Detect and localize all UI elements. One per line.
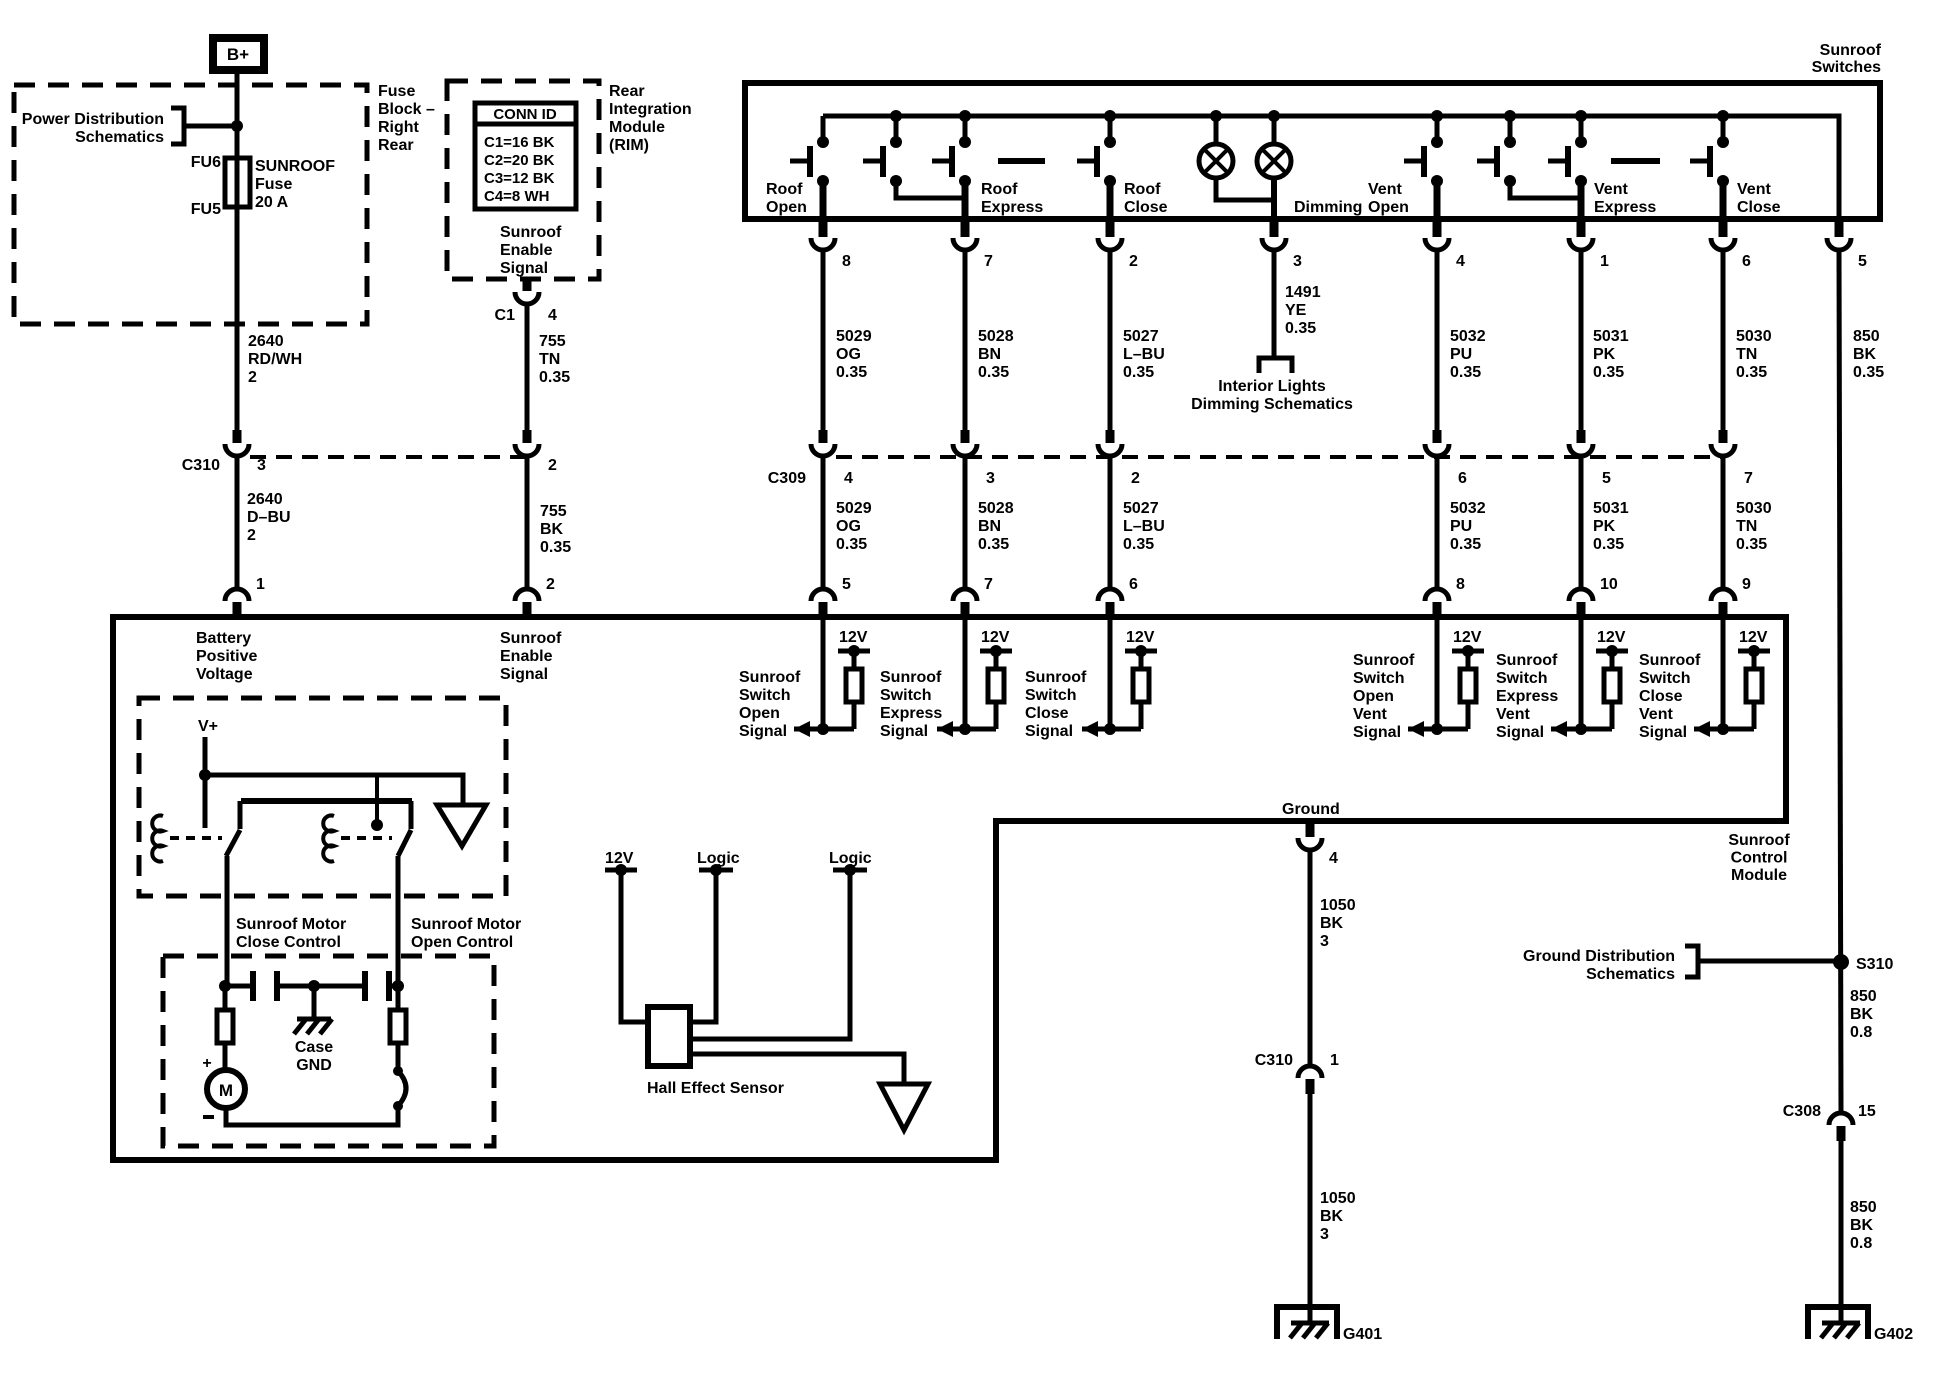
wire switch stub — [963, 116, 968, 140]
motor M — [207, 1070, 245, 1108]
module connector pin 9 — [1711, 589, 1735, 601]
svg-text:Sunroof Motor: Sunroof Motor — [411, 916, 521, 933]
svg-text:0.35: 0.35 — [539, 369, 570, 386]
svg-text:Express: Express — [1496, 688, 1558, 705]
wire 850 BK to S310 — [1839, 250, 1841, 1113]
svg-text:BK: BK — [540, 521, 564, 538]
svg-text:2: 2 — [247, 527, 256, 544]
bus junction — [959, 110, 971, 122]
svg-text:Sunroof: Sunroof — [500, 630, 562, 647]
wire C309 to module — [821, 456, 826, 589]
junction node on B+ feed — [231, 120, 243, 132]
svg-text:5030: 5030 — [1736, 500, 1772, 517]
svg-text:5027: 5027 — [1123, 500, 1159, 517]
wire signal to arrow — [1551, 727, 1612, 732]
svg-text:4: 4 — [1329, 850, 1338, 867]
svg-text:0.35: 0.35 — [836, 536, 867, 553]
wire switch output — [962, 181, 969, 219]
svg-text:L–BU: L–BU — [1123, 518, 1165, 535]
dashed connector line C310 — [250, 455, 527, 459]
svg-text:5: 5 — [1858, 253, 1867, 270]
wire switch stub — [1721, 116, 1726, 140]
wire signal to arrow — [937, 727, 996, 732]
switch upper contact — [1504, 136, 1516, 148]
svg-text:3: 3 — [1293, 253, 1302, 270]
wire motor bottom rail — [226, 1108, 398, 1125]
svg-text:0.35: 0.35 — [978, 536, 1009, 553]
connector sunroof switches pin 1 — [1577, 221, 1586, 237]
relay K2 fixed contact — [409, 801, 414, 829]
wire power distribution tap — [184, 124, 237, 129]
wire C310-2 to module pin 2 — [525, 456, 530, 589]
switch actuator bar — [1421, 146, 1427, 177]
module connector pin 6 — [1098, 589, 1122, 601]
svg-text:SUNROOF: SUNROOF — [255, 158, 335, 175]
connector sunroof switches pin 4 — [1433, 221, 1442, 237]
wire switch stub — [894, 116, 899, 140]
wire C309 to module — [1579, 456, 1584, 589]
svg-text:2: 2 — [546, 576, 555, 593]
wire C309 to module — [1435, 456, 1440, 589]
limit switch contact dots — [393, 1066, 403, 1076]
svg-text:Interior Lights: Interior Lights — [1218, 378, 1326, 395]
connector C309 pin 4 — [819, 430, 828, 443]
svg-text:7: 7 — [984, 253, 993, 270]
svg-text:5028: 5028 — [978, 500, 1014, 517]
svg-text:FU6: FU6 — [191, 154, 221, 171]
sunroof control module box — [113, 617, 1786, 1160]
svg-text:5031: 5031 — [1593, 500, 1629, 517]
bus junction — [1104, 110, 1116, 122]
bus junction — [1504, 110, 1516, 122]
svg-text:Dimming: Dimming — [1294, 199, 1362, 216]
arrowhead signal — [794, 721, 810, 737]
resistor pull-up — [1466, 651, 1471, 669]
svg-text:5032: 5032 — [1450, 328, 1486, 345]
wire module input — [1579, 617, 1584, 729]
svg-text:Sunroof: Sunroof — [1728, 832, 1790, 849]
wire relay contact rail — [241, 798, 412, 804]
wire C310-1 to G401 — [1308, 1094, 1313, 1323]
switch actuator bar — [880, 146, 886, 177]
svg-text:850: 850 — [1853, 328, 1880, 345]
svg-text:12V: 12V — [839, 629, 868, 646]
svg-text:PK: PK — [1593, 518, 1616, 535]
svg-text:OG: OG — [836, 518, 861, 535]
ground G402 — [1808, 1307, 1868, 1339]
svg-text:5: 5 — [1602, 470, 1611, 487]
connector sunroof switches pin 7 — [961, 221, 970, 237]
svg-text:Module: Module — [609, 119, 665, 136]
connector sunroof switches pin 3 — [1270, 221, 1279, 237]
svg-text:Rear: Rear — [378, 137, 414, 154]
svg-text:Vent: Vent — [1737, 181, 1771, 198]
svg-text:V+: V+ — [198, 718, 218, 735]
switch upper contact — [1104, 136, 1116, 148]
switch upper contact — [1431, 136, 1443, 148]
svg-text:12V: 12V — [981, 629, 1010, 646]
lamp dimming illumination 2 — [1272, 116, 1277, 144]
svg-text:1: 1 — [256, 576, 265, 593]
svg-text:Control: Control — [1731, 850, 1788, 867]
svg-text:4: 4 — [844, 470, 853, 487]
svg-text:Signal: Signal — [1639, 724, 1687, 741]
wire hall sensor output to ground triangle — [690, 1054, 904, 1084]
svg-text:BN: BN — [978, 346, 1001, 363]
svg-text:C4=8 WH: C4=8 WH — [484, 188, 549, 205]
wire switch output — [1720, 181, 1727, 219]
junction open branch — [392, 980, 404, 992]
wire module input — [1435, 617, 1440, 729]
resistor pull-up — [852, 651, 857, 669]
svg-text:0.8: 0.8 — [1850, 1024, 1872, 1041]
module connector pin 10 — [1569, 589, 1593, 601]
resistor motor close — [223, 986, 228, 1010]
svg-text:BN: BN — [978, 518, 1001, 535]
connector C309 pin 5 — [1577, 430, 1586, 443]
wire dimming 1491 YE — [1272, 250, 1277, 357]
svg-text:5027: 5027 — [1123, 328, 1159, 345]
svg-text:Module: Module — [1731, 867, 1787, 884]
svg-text:5029: 5029 — [836, 328, 872, 345]
bus junction — [1431, 110, 1443, 122]
connector C1 pin 4 of RIM — [523, 279, 532, 291]
wire module input — [963, 617, 968, 729]
wire signal to arrow — [1408, 727, 1468, 732]
limit switch arc — [398, 1071, 406, 1106]
arrowhead signal — [1551, 721, 1567, 737]
svg-text:Right: Right — [378, 119, 420, 136]
arrowhead signal — [1408, 721, 1424, 737]
svg-text:2: 2 — [1131, 470, 1140, 487]
svg-text:C310: C310 — [182, 457, 220, 474]
svg-text:5030: 5030 — [1736, 328, 1772, 345]
switch lower contact — [1104, 175, 1116, 187]
wire switch to C309 — [1721, 250, 1726, 431]
svg-text:12V: 12V — [1126, 629, 1155, 646]
svg-text:6: 6 — [1742, 253, 1751, 270]
junction signal — [1104, 723, 1116, 735]
wire B+ to fuse to C310 pin 3 — [235, 74, 240, 440]
svg-text:TN: TN — [1736, 518, 1757, 535]
dashed connector line C309 — [836, 455, 1723, 459]
wire module input — [821, 617, 826, 729]
module connector pin 4 ground — [1306, 824, 1315, 837]
svg-text:0.8: 0.8 — [1850, 1235, 1872, 1252]
svg-text:C308: C308 — [1783, 1103, 1821, 1120]
svg-text:Sunroof: Sunroof — [1496, 652, 1558, 669]
svg-text:Vent: Vent — [1353, 706, 1387, 723]
svg-text:PU: PU — [1450, 346, 1472, 363]
svg-text:1491: 1491 — [1285, 284, 1321, 301]
wire switch output — [820, 181, 827, 219]
splice S310 — [1833, 954, 1849, 970]
svg-text:0.35: 0.35 — [1853, 364, 1884, 381]
switch upper contact — [959, 136, 971, 148]
connector C309 pin 7 — [1719, 430, 1728, 443]
relay coil K2 — [323, 816, 334, 862]
ground triangle hall — [880, 1084, 928, 1130]
svg-text:2: 2 — [1129, 253, 1138, 270]
svg-text:Signal: Signal — [739, 723, 787, 740]
wire switch to C309 — [1108, 250, 1113, 431]
junction signal — [1575, 723, 1587, 735]
svg-text:0.35: 0.35 — [1736, 536, 1767, 553]
resistor pull-up — [1610, 651, 1615, 669]
arrowhead signal — [937, 721, 953, 737]
wire switch stub — [1508, 116, 1513, 140]
connector C310 pin 2 — [523, 430, 532, 443]
junction signal — [817, 723, 829, 735]
wire 12V to hall sensor — [621, 870, 646, 1022]
svg-text:Open: Open — [766, 199, 807, 216]
mechanical link bar vent — [1611, 158, 1660, 164]
svg-text:G402: G402 — [1874, 1326, 1913, 1343]
svg-text:0.35: 0.35 — [1285, 320, 1316, 337]
junction close branch — [219, 980, 231, 992]
svg-text:BK: BK — [1853, 346, 1877, 363]
module connector pin 1 — [225, 589, 249, 601]
connector sunroof switches pin 5 — [1835, 221, 1844, 237]
svg-text:Sunroof Motor: Sunroof Motor — [236, 916, 346, 933]
wire signal to arrow — [1694, 727, 1754, 732]
svg-text:0.35: 0.35 — [836, 364, 867, 381]
svg-text:C2=20 BK: C2=20 BK — [484, 152, 555, 169]
module connector pin 2 — [515, 589, 539, 601]
svg-text:0.35: 0.35 — [978, 364, 1009, 381]
svg-text:Switch: Switch — [1025, 687, 1077, 704]
connector sunroof switches pin 8 — [819, 221, 828, 237]
capacitor C-right — [362, 971, 368, 1001]
svg-text:4: 4 — [548, 307, 557, 324]
svg-text:Signal: Signal — [1353, 724, 1401, 741]
wire switch stub — [1435, 116, 1440, 140]
svg-text:Sunroof: Sunroof — [739, 669, 801, 686]
svg-text:Signal: Signal — [500, 260, 548, 277]
svg-text:0.35: 0.35 — [1593, 364, 1624, 381]
svg-text:Switch: Switch — [1496, 670, 1548, 687]
svg-text:D–BU: D–BU — [247, 509, 291, 526]
svg-text:Integration: Integration — [609, 101, 692, 118]
svg-text:OG: OG — [836, 346, 861, 363]
relay dashed box — [139, 698, 506, 896]
svg-text:0.35: 0.35 — [1450, 364, 1481, 381]
lamp dimming illumination 1 — [1214, 116, 1219, 144]
svg-text:C310: C310 — [1255, 1052, 1293, 1069]
connector C309 pin 6 — [1433, 430, 1442, 443]
svg-text:L–BU: L–BU — [1123, 346, 1165, 363]
wire gang link roof express — [896, 183, 965, 198]
svg-text:12V: 12V — [1453, 629, 1482, 646]
svg-text:6: 6 — [1458, 470, 1467, 487]
svg-text:Vent: Vent — [1368, 181, 1402, 198]
svg-text:755: 755 — [540, 503, 567, 520]
svg-text:7: 7 — [1744, 470, 1753, 487]
svg-text:1050: 1050 — [1320, 1190, 1356, 1207]
svg-text:Dimming Schematics: Dimming Schematics — [1191, 396, 1353, 413]
svg-text:Switch: Switch — [1353, 670, 1405, 687]
svg-text:0.35: 0.35 — [1593, 536, 1624, 553]
svg-text:Signal: Signal — [880, 723, 928, 740]
resistor motor open — [396, 986, 401, 1010]
svg-text:TN: TN — [1736, 346, 1757, 363]
svg-text:YE: YE — [1285, 302, 1307, 319]
connector C310 pin 3 — [233, 430, 242, 443]
wire switch output — [1107, 181, 1114, 219]
switch upper contact — [890, 136, 902, 148]
wire signal to arrow — [1082, 727, 1141, 732]
bus junction — [1717, 110, 1729, 122]
switch lower contact — [890, 175, 902, 187]
svg-text:Vent: Vent — [1639, 706, 1673, 723]
ground triangle module internal — [437, 805, 486, 846]
svg-text:Vent: Vent — [1594, 181, 1628, 198]
svg-text:2640: 2640 — [247, 491, 283, 508]
svg-text:Power Distribution: Power Distribution — [22, 111, 164, 128]
svg-text:Open: Open — [739, 705, 780, 722]
wire module input — [1721, 617, 1726, 729]
svg-text:12V: 12V — [1739, 629, 1768, 646]
svg-text:1: 1 — [1330, 1052, 1339, 1069]
svg-text:0.35: 0.35 — [1450, 536, 1481, 553]
switch actuator bar — [1094, 146, 1100, 177]
svg-text:6: 6 — [1129, 576, 1138, 593]
svg-text:FU5: FU5 — [191, 201, 221, 218]
svg-text:Enable: Enable — [500, 242, 553, 259]
relay K1 linkage dashes — [170, 836, 222, 840]
connector C308 pin 15 — [1829, 1113, 1853, 1125]
svg-text:Switches: Switches — [1812, 59, 1881, 76]
wire logic2 to hall sensor — [690, 870, 850, 1039]
svg-text:Ground: Ground — [1282, 801, 1340, 818]
resistor pull-up — [994, 651, 999, 669]
motor dashed box — [163, 956, 494, 1146]
svg-text:C3=12 BK: C3=12 BK — [484, 170, 555, 187]
wire switch output — [1434, 181, 1441, 219]
switch lower contact — [1575, 175, 1587, 187]
svg-text:2: 2 — [248, 369, 257, 386]
switch lower contact — [1717, 175, 1729, 187]
wire lamp to pin 3 — [1271, 178, 1277, 219]
switch lower contact — [817, 175, 829, 187]
sunroof switches box — [745, 83, 1880, 219]
switch actuator bar — [949, 146, 955, 177]
wire lamp bottoms join — [1216, 178, 1274, 200]
wire V+ rail to ground triangle — [205, 775, 463, 805]
svg-text:BK: BK — [1320, 915, 1344, 932]
svg-text:TN: TN — [539, 351, 560, 368]
fuse FU6/FU5 SUNROOF Fuse 20 A — [225, 158, 250, 207]
wire switch stub — [821, 116, 826, 140]
svg-text:0.35: 0.35 — [1736, 364, 1767, 381]
CONN ID table — [475, 103, 576, 209]
relay K2 linkage dashes — [341, 836, 392, 840]
svg-text:8: 8 — [842, 253, 851, 270]
svg-text:Rear: Rear — [609, 83, 645, 100]
switch upper contact — [1575, 136, 1587, 148]
svg-text:G401: G401 — [1343, 1326, 1382, 1343]
svg-text:12V: 12V — [1597, 629, 1626, 646]
svg-text:Switch: Switch — [880, 687, 932, 704]
svg-text:M: M — [219, 1081, 233, 1100]
svg-text:5032: 5032 — [1450, 500, 1486, 517]
bus junction — [890, 110, 902, 122]
svg-text:Open Control: Open Control — [411, 934, 513, 951]
module connector pin 8 — [1425, 589, 1449, 601]
svg-text:Voltage: Voltage — [196, 666, 253, 683]
wire C309 to module — [1721, 456, 1726, 589]
svg-text:Roof: Roof — [1124, 181, 1161, 198]
capacitor C-left — [250, 971, 256, 1001]
svg-text:5029: 5029 — [836, 500, 872, 517]
svg-text:Signal: Signal — [1496, 724, 1544, 741]
bus junction — [1575, 110, 1587, 122]
svg-text:BK: BK — [1850, 1217, 1874, 1234]
svg-text:C1=16 BK: C1=16 BK — [484, 134, 555, 151]
svg-text:Close Control: Close Control — [236, 934, 341, 951]
relay K1 fixed contact — [238, 801, 243, 829]
svg-text:Close: Close — [1639, 688, 1683, 705]
module connector pin 5 — [811, 589, 835, 601]
svg-text:Close: Close — [1025, 705, 1069, 722]
svg-text:Close: Close — [1124, 199, 1168, 216]
svg-text:Sunroof: Sunroof — [880, 669, 942, 686]
svg-text:3: 3 — [257, 457, 266, 474]
svg-text:0.35: 0.35 — [1123, 536, 1154, 553]
connector C309 pin 3 — [961, 430, 970, 443]
svg-text:5028: 5028 — [978, 328, 1014, 345]
svg-text:2640: 2640 — [248, 333, 284, 350]
junction signal — [1717, 723, 1729, 735]
svg-text:Battery: Battery — [196, 630, 251, 647]
svg-text:RD/WH: RD/WH — [248, 351, 302, 368]
svg-text:4: 4 — [1456, 253, 1465, 270]
svg-text:C309: C309 — [768, 470, 806, 487]
svg-text:Signal: Signal — [500, 666, 548, 683]
switch supply bus — [823, 116, 1839, 219]
svg-text:Positive: Positive — [196, 648, 257, 665]
relay coil K1 — [152, 816, 163, 862]
svg-text:Schematics: Schematics — [75, 129, 164, 146]
resistor pull-up — [1139, 651, 1144, 669]
bus junction — [1210, 110, 1222, 122]
switch actuator bar — [1707, 146, 1713, 177]
svg-text:Ground Distribution: Ground Distribution — [1523, 948, 1675, 965]
connector sunroof switches pin 2 — [1106, 221, 1115, 237]
svg-text:GND: GND — [296, 1057, 332, 1074]
svg-text:Signal: Signal — [1025, 723, 1073, 740]
connector C309 pin 2 — [1106, 430, 1115, 443]
hall effect sensor box — [648, 1007, 690, 1066]
svg-text:10: 10 — [1600, 576, 1618, 593]
junction signal — [959, 723, 971, 735]
svg-text:B+: B+ — [227, 45, 249, 64]
svg-text:BK: BK — [1850, 1006, 1874, 1023]
svg-text:3: 3 — [1320, 933, 1329, 950]
switch upper contact — [817, 136, 829, 148]
svg-text:Sunroof: Sunroof — [1820, 42, 1882, 59]
svg-text:9: 9 — [1742, 576, 1751, 593]
wire capacitor rail — [225, 984, 253, 989]
svg-text:Vent: Vent — [1496, 706, 1530, 723]
svg-text:Switch: Switch — [1639, 670, 1691, 687]
connector sunroof switches pin 6 — [1719, 221, 1728, 237]
wire ground 1050 BK — [1308, 851, 1313, 1066]
switch actuator bar — [807, 146, 813, 177]
wire switch output — [1578, 181, 1585, 219]
wire C308 to G402 — [1839, 1141, 1844, 1323]
wire switch to C309 — [821, 250, 826, 431]
